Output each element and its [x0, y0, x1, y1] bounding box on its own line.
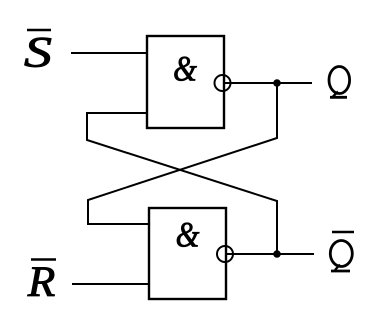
label Qbar overbar	[332, 231, 354, 234]
node Qbar junction	[273, 250, 281, 258]
label Qbar (tail connector)	[335, 265, 340, 271]
svg-text:&: &	[173, 49, 197, 89]
label Qbar (bowl)	[330, 241, 352, 267]
wire feedback Qbar to U1 input	[87, 113, 277, 254]
label Q (tail connector)	[333, 92, 338, 97]
wire Q output	[224, 82, 312, 84]
label Q (tail foot)	[330, 96, 347, 99]
nand gate U2 box	[149, 208, 226, 299]
nand gate U1 box	[147, 36, 224, 128]
svg-text:&: &	[176, 215, 200, 255]
label R-bar overbar	[31, 258, 56, 261]
node Q junction	[273, 79, 281, 87]
svg-text:R: R	[27, 258, 56, 306]
wire R input	[72, 283, 149, 285]
wire feedback Q to U2 input	[88, 83, 277, 224]
U1 output inversion bubble	[215, 75, 231, 91]
svg-text:S: S	[24, 29, 52, 76]
wire S input	[71, 52, 147, 54]
label Q (bowl)	[329, 67, 350, 94]
U2 output inversion bubble	[217, 246, 233, 262]
label Qbar (tail foot)	[331, 270, 350, 273]
wire Qbar output	[226, 253, 314, 255]
label S-bar overbar	[27, 29, 51, 32]
